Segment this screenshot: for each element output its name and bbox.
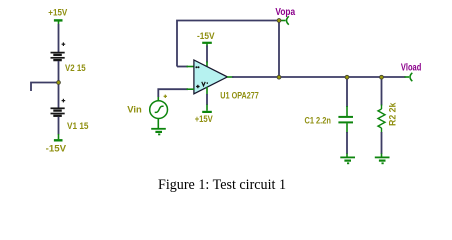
wire R2 top [381,77,383,106]
junction dot C1 [345,75,349,79]
source Vin polarity + [164,95,167,98]
pin stub V- [206,62,208,67]
pin stub source bottom [157,118,159,128]
battery V1 [51,108,65,116]
svg-text:C1 2.2n: C1 2.2n [305,116,332,127]
power symbol +15V (left column) [54,20,63,24]
svg-text:R2 2k: R2 2k [388,102,399,126]
wire Vin source to + input [158,89,188,97]
wire junction stub to left and down [31,83,59,92]
junction dot feedback/output [277,75,281,79]
resistor R2 [378,105,385,133]
junction dot Vopa corner [277,19,281,23]
svg-text:Figure 1: Test circuit 1: Figure 1: Test circuit 1 [158,177,286,193]
pin stub op-amp output [227,76,234,78]
wire C1 top [346,77,348,107]
svg-text:U1 OPA277: U1 OPA277 [220,91,258,102]
pin stub inverting input [187,66,195,68]
wire output to Vload [232,76,406,78]
node Vload marker [405,73,413,81]
source Vin circle [150,101,168,119]
power symbol -15V (left column) [54,134,63,140]
wire V1 bottom to -15V bar [58,117,60,135]
pin stub C1 ground [346,154,348,158]
wire feedback to inverting input [177,66,188,68]
ground (under R2) [375,157,390,163]
pin stub V+ [206,87,208,94]
pin stub source top [157,97,159,101]
node Vopa marker [281,16,289,24]
op-amp plus mark [196,85,200,88]
svg-text:+15V: +15V [195,114,214,125]
pin stub noninverting input [187,88,195,90]
op-amp U1 triangle [194,60,228,94]
wire -15V bar to op-amp V- pin [206,46,208,63]
op-amp minus mark [195,66,199,68]
capacitor C1 [338,106,353,133]
svg-text:V1 15: V1 15 [67,121,89,132]
ground (under Vin) [151,129,166,135]
wire +15V bar to V2 battery [58,24,60,52]
svg-text:Vin: Vin [127,104,142,115]
wire op-amp V+ pin to +15V bar [206,94,208,105]
ground (under C1) [340,157,355,163]
power symbol +15V (op-amp V+) [202,105,212,112]
svg-text:-15V: -15V [46,143,67,154]
feedback wire: left vertical + top horizontal + right vertical [177,21,279,78]
source Vin waveform [155,106,164,112]
wire R2 bottom [381,132,383,154]
op-amp V+ tiny label [202,82,208,86]
pin stub R2 ground [381,154,383,158]
svg-text:Vopa: Vopa [275,7,295,18]
junction dot between V1 and V2 [57,81,61,85]
svg-text:+15V: +15V [48,8,68,19]
power symbol -15V (op-amp V-) [202,43,212,47]
battery V1 polarity + [62,99,66,103]
battery V2 [51,53,65,61]
svg-text:-15V: -15V [197,31,215,42]
wire V2 bottom to junction to V1 top [58,61,60,108]
wire C1 bottom [346,132,348,154]
svg-text:V2 15: V2 15 [65,63,86,74]
junction dot R2 [380,75,384,79]
battery V2 polarity + [62,42,66,46]
svg-text:Vload: Vload [401,62,421,73]
